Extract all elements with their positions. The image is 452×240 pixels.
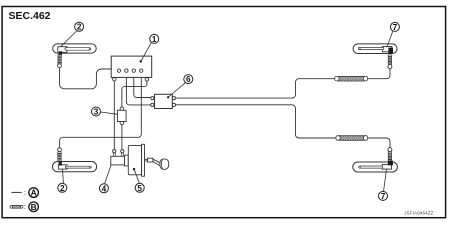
svg-text:SEC.462: SEC.462 (9, 10, 51, 22)
svg-text:7: 7 (393, 23, 398, 32)
svg-text:5: 5 (137, 184, 142, 193)
svg-text:1: 1 (152, 35, 157, 44)
svg-text:6: 6 (186, 75, 191, 84)
svg-text::: : (24, 204, 26, 211)
svg-text:2: 2 (77, 23, 82, 32)
svg-text:3: 3 (94, 108, 99, 117)
svg-text:B: B (31, 202, 37, 212)
svg-text:4: 4 (102, 184, 107, 193)
svg-text:JSFIA0464ZZ: JSFIA0464ZZ (404, 211, 433, 216)
svg-text::: : (24, 190, 26, 197)
svg-text:A: A (31, 188, 37, 198)
svg-text:2: 2 (60, 184, 65, 193)
svg-text:7: 7 (381, 192, 386, 201)
